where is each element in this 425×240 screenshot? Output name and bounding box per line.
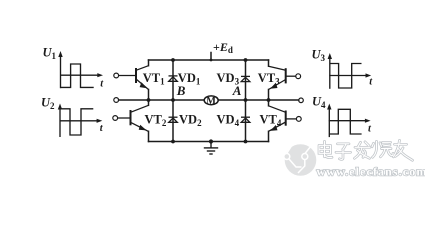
watermark text 电子发烧友 (hand-drawn strokes, Liberation has no CJK)	[319, 140, 413, 160]
svg-text:VT2: VT2	[145, 113, 167, 129]
waveform U4	[329, 107, 367, 137]
junction node B rail / VT1-VT2	[147, 98, 151, 102]
transistor VT4	[269, 106, 302, 132]
junction top rail / +Ed stub	[210, 59, 213, 62]
wire VT3 collector riser	[268, 60, 270, 66]
wire VD2 branch	[172, 100, 174, 142]
junction bottom rail / ground	[209, 139, 213, 143]
wire VT2 emitter riser	[148, 131, 150, 141]
svg-text:U4: U4	[312, 95, 326, 111]
junction node A rail / VT3-VT4	[267, 98, 271, 102]
waveform U1	[60, 55, 99, 89]
wire VT1 emitter riser	[148, 90, 150, 101]
ground	[204, 142, 218, 155]
middle rail left segment	[119, 99, 205, 101]
wire VD4 branch	[245, 100, 247, 142]
svg-text:www.elecfans.com: www.elecfans.com	[317, 164, 425, 178]
diode VD4	[241, 117, 250, 122]
watermark logo circle	[284, 144, 317, 176]
wire VT4 emitter riser	[268, 131, 270, 141]
svg-text:t: t	[100, 123, 104, 134]
烧	[372, 141, 393, 157]
+Ed supply stub	[210, 53, 212, 61]
wire VT4 collector riser	[268, 100, 270, 106]
svg-text:VT3: VT3	[258, 71, 280, 87]
bottom rail	[149, 141, 269, 143]
wire VT3 emitter riser	[268, 90, 270, 101]
junction top rail / VD1	[171, 58, 175, 62]
transistor VT2	[113, 105, 149, 131]
发	[355, 142, 371, 159]
wire VT1 collector riser	[148, 60, 150, 66]
svg-text:t: t	[368, 123, 372, 134]
wire VD1 branch	[172, 60, 174, 100]
transistor VT3	[269, 66, 301, 89]
junction node A rail / VD3-VD4	[244, 98, 248, 102]
svg-text:t: t	[100, 78, 104, 89]
svg-text:VT1: VT1	[143, 71, 165, 87]
svg-text:t: t	[369, 76, 373, 87]
友	[394, 140, 413, 160]
svg-text:B: B	[176, 83, 186, 98]
top rail	[149, 59, 269, 61]
waveform U2	[60, 107, 99, 137]
diode VD3	[241, 76, 250, 81]
waveform U3	[329, 57, 367, 89]
motor M	[204, 96, 218, 107]
svg-text:VT4: VT4	[260, 113, 282, 129]
wire VD3 branch	[245, 60, 247, 100]
transistor VT1	[114, 66, 149, 90]
junction top rail / VD3	[244, 58, 248, 62]
terminal circle middle rail left	[114, 98, 119, 103]
svg-text:+Ed: +Ed	[213, 40, 233, 55]
middle rail right segment	[218, 99, 299, 101]
wire VT2 collector riser	[148, 100, 150, 105]
junction bottom rail / VD4	[244, 140, 248, 144]
svg-text:U2: U2	[41, 96, 55, 112]
svg-text:VD2: VD2	[179, 113, 202, 129]
junction node B rail / VD1-VD2	[171, 98, 175, 102]
svg-text:A: A	[232, 83, 242, 98]
电	[319, 141, 332, 157]
diode VD1	[169, 76, 178, 81]
svg-text:U3: U3	[312, 48, 326, 64]
junction bottom rail / VD2	[171, 140, 175, 144]
子	[336, 144, 351, 160]
svg-text:M: M	[206, 96, 216, 107]
diode VD2	[169, 117, 178, 122]
svg-text:VD4: VD4	[217, 113, 240, 129]
svg-text:U1: U1	[43, 46, 57, 62]
terminal circle middle rail right	[299, 98, 304, 103]
